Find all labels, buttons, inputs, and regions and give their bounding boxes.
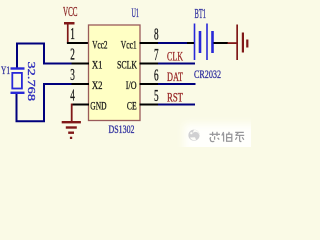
svg-text:CR2032: CR2032 [194, 67, 221, 81]
battery BT1 symbol [194, 24, 214, 61]
pin 3 stub [71, 83, 89, 85]
svg-text:6: 6 [154, 66, 159, 85]
wire VCC to pin 1 [67, 42, 89, 44]
wire node RST [158, 104, 195, 106]
wire battery negative to ground [214, 42, 229, 44]
pin 7 stub [140, 63, 159, 65]
pin 4 stub [71, 104, 89, 106]
svg-text:32.768: 32.768 [25, 62, 37, 102]
wire crystal bottom to pin 3 (X2) [17, 84, 72, 121]
svg-text:7: 7 [154, 45, 159, 64]
wire crystal top to pin 2 (X1) [17, 44, 72, 69]
svg-text:I/O: I/O [126, 78, 137, 92]
watermark logo icon [188, 130, 199, 141]
svg-text:DAT: DAT [167, 69, 183, 84]
svg-text:2: 2 [70, 44, 75, 63]
svg-text:X1: X1 [92, 57, 103, 71]
svg-text:8: 8 [154, 25, 159, 44]
svg-text:1: 1 [70, 24, 75, 43]
pin 8 stub [140, 42, 159, 44]
wire pin 8 Vcc1 to battery [158, 42, 187, 44]
wire node CLK [158, 63, 195, 65]
svg-text:3: 3 [70, 65, 75, 84]
ground right of battery (rotated) [228, 25, 249, 61]
svg-text:DS1302: DS1302 [109, 122, 135, 136]
wire node DAT [158, 83, 196, 85]
svg-text:BT1: BT1 [195, 7, 207, 22]
svg-text:CLK: CLK [167, 49, 183, 64]
svg-text:SCLK: SCLK [117, 57, 137, 71]
svg-text:CE: CE [127, 98, 137, 112]
power port VCC [63, 5, 78, 43]
IC U1 body [89, 25, 141, 121]
svg-text:U1: U1 [132, 5, 140, 20]
svg-text:GND: GND [90, 98, 106, 112]
svg-text:VCC: VCC [63, 5, 78, 20]
watermark text [210, 132, 245, 142]
svg-text:Vcc2: Vcc2 [92, 37, 107, 51]
svg-text:Vcc1: Vcc1 [121, 37, 137, 51]
pin 6 stub [140, 83, 159, 85]
pin 5 stub [140, 104, 159, 106]
svg-text:Y1: Y1 [1, 63, 10, 77]
pin 2 stub [71, 63, 89, 65]
svg-text:4: 4 [70, 85, 75, 104]
wire battery positive stub [187, 42, 194, 44]
svg-text:RST: RST [167, 90, 183, 105]
ground below pin 4 [62, 104, 81, 140]
crystal Y1 symbol [11, 67, 25, 94]
svg-text:5: 5 [154, 86, 159, 105]
svg-text:X2: X2 [92, 78, 103, 92]
